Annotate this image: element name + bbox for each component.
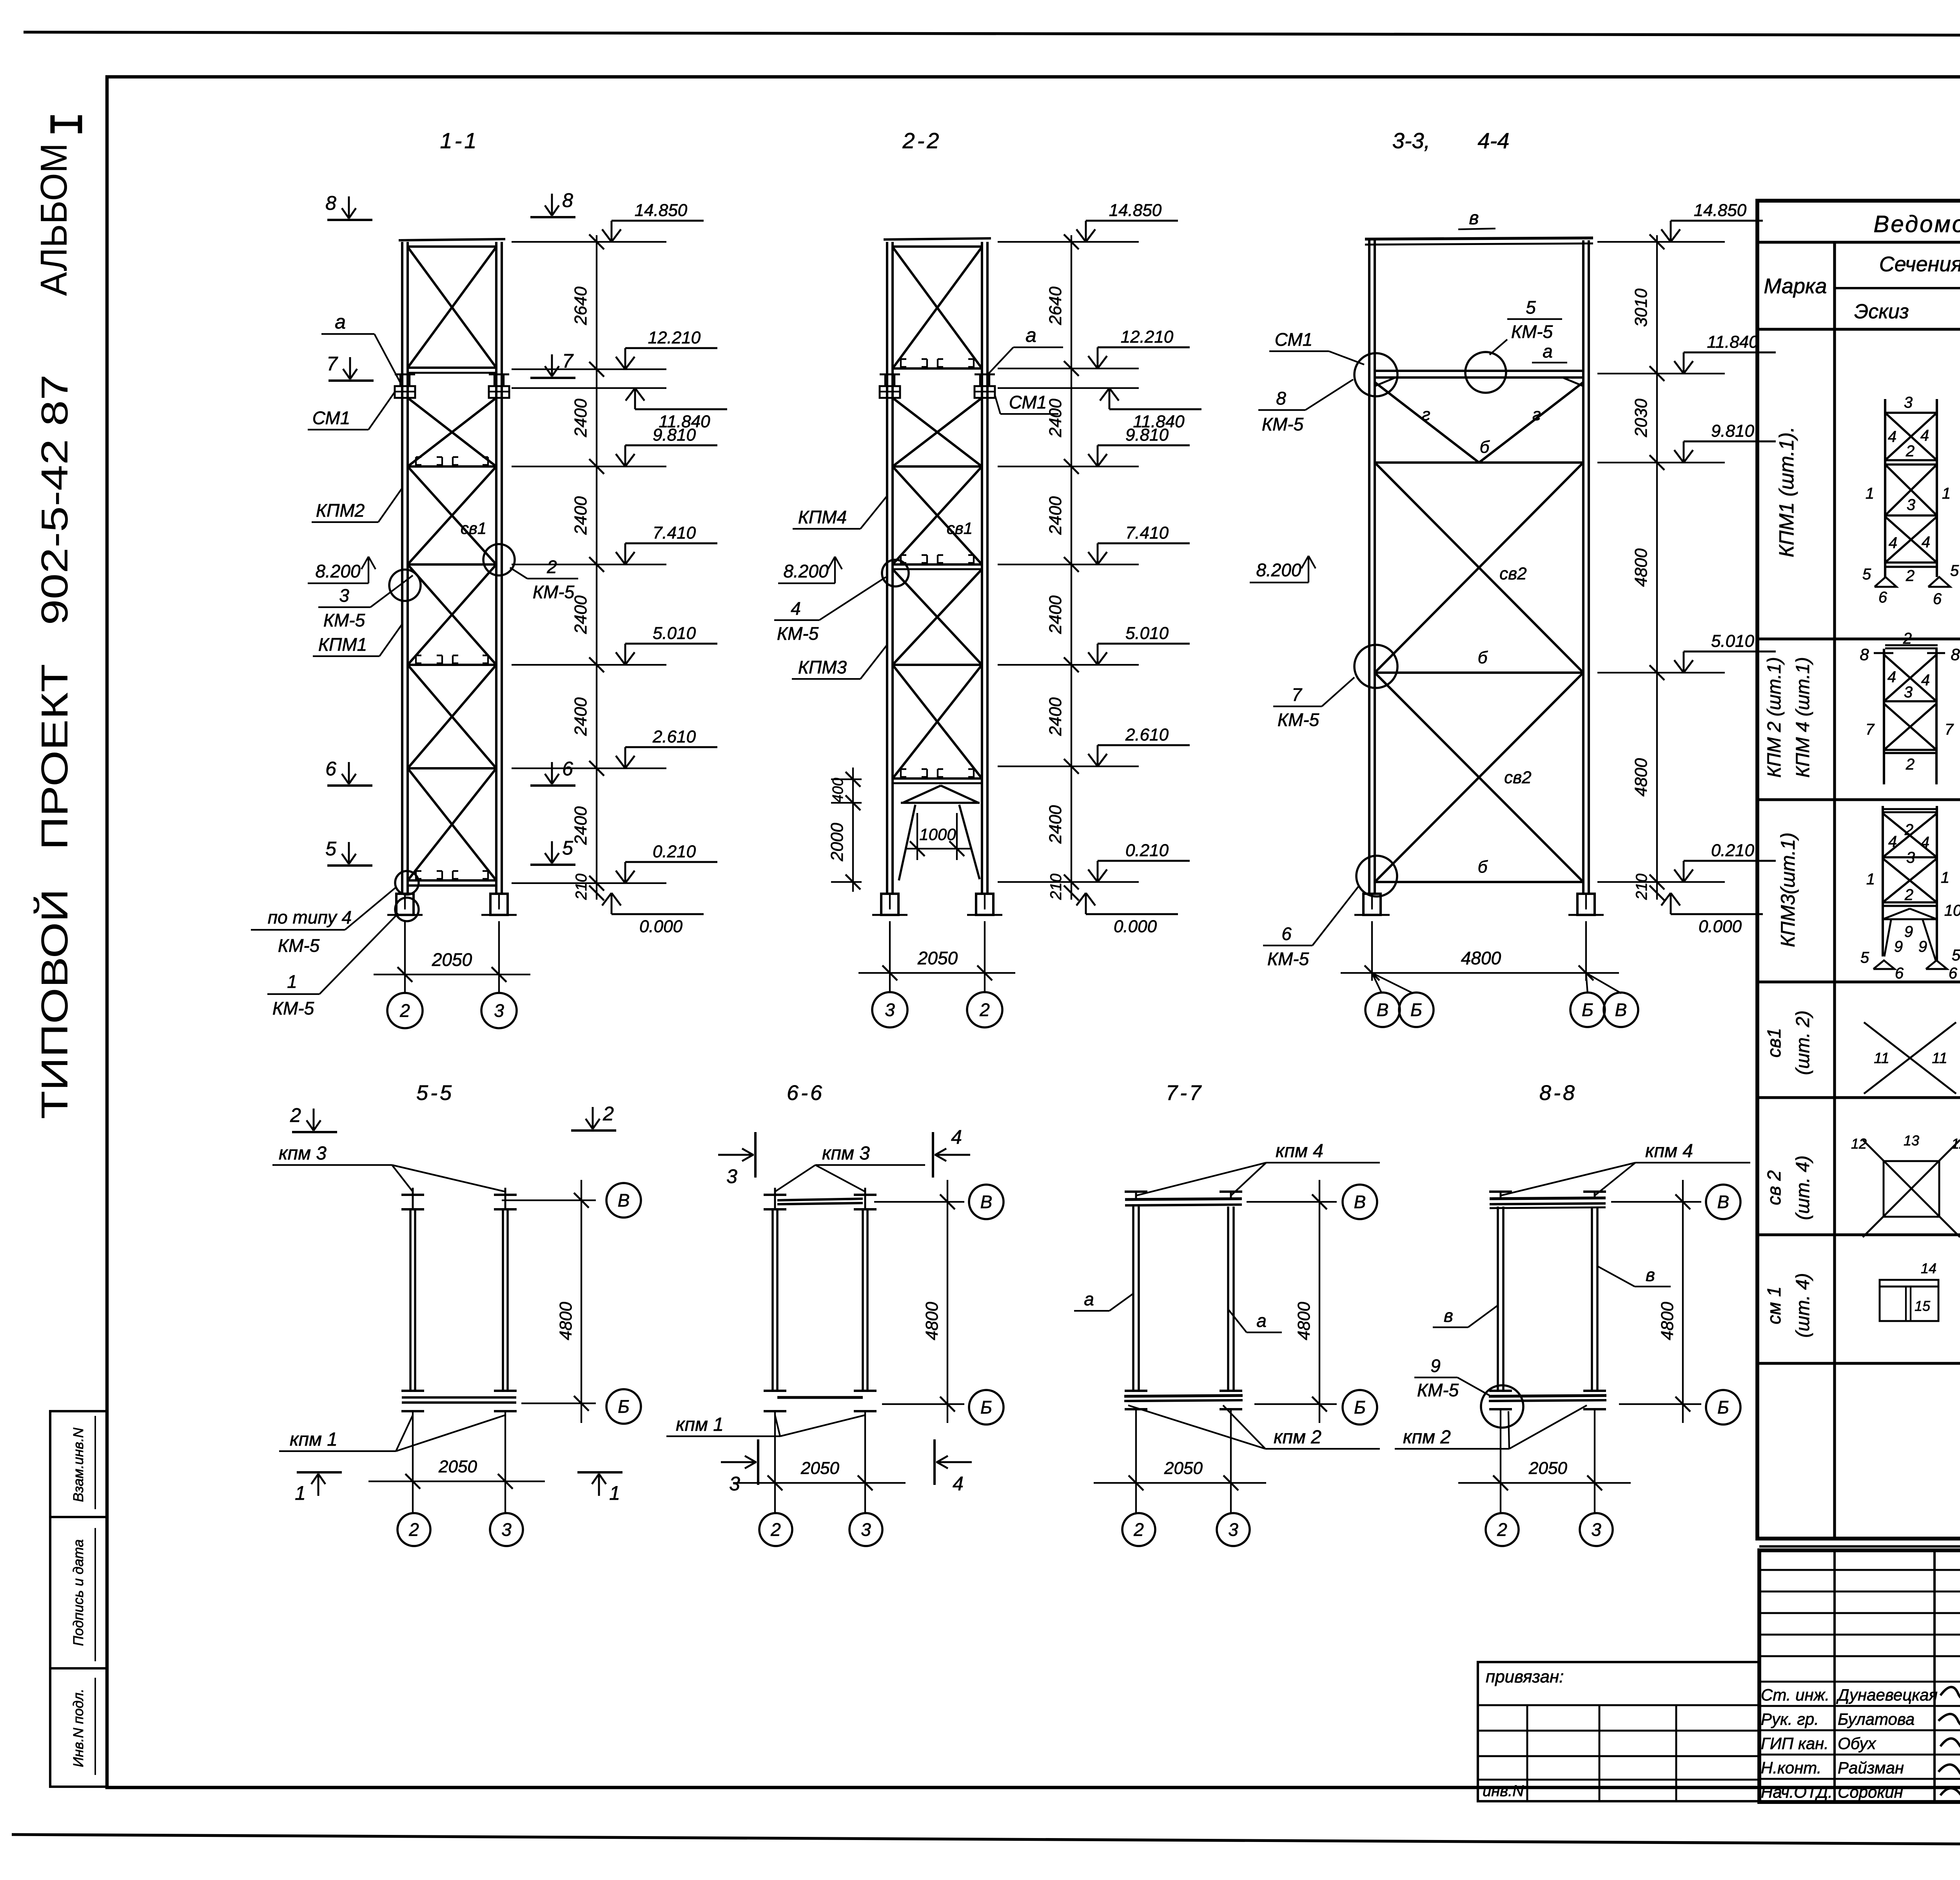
svg-text:2400: 2400 — [571, 697, 590, 736]
section 7-7 left column а — [1125, 1190, 1147, 1193]
table title row — [1757, 241, 1960, 243]
svg-text:14: 14 — [1921, 1260, 1936, 1276]
level flags tower 1-1 — [611, 221, 613, 242]
tower 1-1 X brace panel 4 — [408, 564, 496, 665]
svg-text:7-7: 7-7 — [1166, 1081, 1203, 1105]
tower 2-2 X brace panel 3 — [893, 466, 982, 564]
grid bubble 3 section 5-5 — [490, 1513, 523, 1546]
svg-text:Б: Б — [1354, 1397, 1366, 1417]
svg-text:2: 2 — [979, 1000, 990, 1020]
svg-text:15: 15 — [1915, 1298, 1931, 1314]
svg-text:КМ-5: КМ-5 — [1511, 321, 1553, 342]
svg-text:(шт. 4): (шт. 4) — [1793, 1156, 1813, 1220]
svg-text:5: 5 — [1952, 947, 1960, 964]
svg-text:Марка: Марка — [1764, 274, 1827, 298]
section marker 7 left — [328, 379, 374, 382]
svg-text:2.610: 2.610 — [1125, 725, 1169, 744]
svg-text:4: 4 — [791, 598, 801, 619]
svg-text:3: 3 — [885, 1000, 895, 1020]
tower 2-2 rung at 12.210 with channel marks — [893, 367, 982, 370]
svg-text:АЛЬБОМ: АЛЬБОМ — [33, 143, 75, 296]
bottom-left stamp column — [50, 1411, 107, 1787]
svg-text:1: 1 — [1941, 869, 1949, 886]
tower 3-3 top chord в — [1365, 238, 1593, 239]
svg-text:2400: 2400 — [571, 399, 590, 437]
grid bubble 3 tower 2-2 — [889, 981, 891, 993]
svg-text:Ведомость: Ведомость — [1873, 211, 1960, 237]
svg-text:6: 6 — [1281, 924, 1292, 944]
dimension 4800 tower 3-3 — [1371, 921, 1373, 981]
grid bubble Б section 7-7 — [1343, 1390, 1377, 1425]
grid bubble 3 section 7-7 — [1217, 1513, 1250, 1546]
svg-text:5: 5 — [1862, 566, 1871, 583]
svg-text:2.610: 2.610 — [652, 727, 696, 746]
tower 1-1 top chord — [399, 239, 505, 240]
section 7-7 right column а — [1220, 1190, 1242, 1193]
section 8-8 bottom beam КПМ2 — [1489, 1390, 1512, 1392]
svg-text:СМ1: СМ1 — [1275, 329, 1313, 350]
tower 2-2 top chord — [884, 238, 991, 240]
grid bubble 2 section 5-5 — [397, 1513, 430, 1546]
svg-text:4: 4 — [1922, 534, 1930, 551]
svg-text:КМ-5: КМ-5 — [1278, 710, 1319, 730]
dimension chain tower 3-3 — [1656, 235, 1658, 900]
svg-text:7: 7 — [1292, 684, 1302, 705]
svg-text:КПМ4: КПМ4 — [798, 507, 847, 527]
svg-text:6-6: 6-6 — [787, 1081, 824, 1105]
svg-text:1000: 1000 — [919, 825, 956, 844]
svg-text:(шт. 4): (шт. 4) — [1793, 1273, 1813, 1338]
svg-text:св1: св1 — [947, 519, 973, 537]
columns leader lines to bubbles 7-7 — [1135, 1409, 1137, 1513]
grid bubble 2 tower 2-2 — [984, 981, 985, 993]
svg-text:Ст. инж.: Ст. инж. — [1761, 1686, 1829, 1704]
joint circle 6 КМ-5 — [1356, 856, 1397, 896]
svg-text:2050: 2050 — [432, 949, 472, 970]
svg-text:2400: 2400 — [1046, 399, 1065, 437]
svg-text:4: 4 — [1888, 428, 1896, 445]
tower 1-1 X brace panel 2 — [408, 398, 496, 466]
tower 3-3 X brace СВ2 upper — [1375, 463, 1583, 673]
svg-text:Б: Б — [1582, 1000, 1593, 1020]
svg-text:2400: 2400 — [1046, 697, 1065, 736]
svg-text:б: б — [1480, 437, 1490, 457]
svg-text:3: 3 — [501, 1519, 512, 1540]
svg-text:7.410: 7.410 — [653, 523, 696, 543]
svg-text:0.000: 0.000 — [639, 917, 683, 936]
level flags tower 3-3 — [1670, 221, 1672, 242]
svg-text:(шт. 2): (шт. 2) — [1793, 1011, 1813, 1075]
dimension 4800 section 6-6 — [947, 1180, 948, 1423]
tower 2-2 rung at 5.010 — [893, 664, 982, 666]
svg-text:а: а — [1256, 1310, 1267, 1331]
svg-text:8.200: 8.200 — [1256, 560, 1301, 580]
grid bubble 2 section 6-6 — [759, 1513, 792, 1546]
grid bubbles Б В right — [1586, 973, 1588, 993]
tower 3-3 base plate right — [1577, 894, 1595, 915]
svg-text:в: в — [1444, 1305, 1453, 1326]
grid bubble 3 — [498, 982, 500, 993]
svg-text:12.210: 12.210 — [1121, 327, 1174, 347]
svg-text:КПМ2: КПМ2 — [316, 500, 365, 521]
joint circle 3 КМ-5 — [389, 570, 421, 601]
tower 2-2 X brace panel 4 — [893, 569, 982, 665]
svg-text:г: г — [1532, 405, 1541, 424]
grid bubble Б section 6-6 — [969, 1390, 1004, 1425]
grid bubble 2 section 8-8 — [1486, 1513, 1519, 1546]
grid bubble В section 6-6 — [969, 1185, 1004, 1219]
dimension 400/2000 tower 2-2 — [852, 768, 854, 892]
svg-text:2: 2 — [1906, 567, 1915, 584]
svg-text:3: 3 — [1907, 496, 1915, 514]
tower 3-3 base plate left — [1363, 894, 1381, 915]
tower 1-1 СМ1 joint left — [395, 374, 415, 376]
table header band — [1757, 328, 1960, 330]
svg-text:11: 11 — [1874, 1050, 1889, 1067]
svg-text:КМ-5: КМ-5 — [272, 998, 314, 1018]
sketch КПМ3 mini tower — [1882, 806, 1884, 956]
joint circle 8 КМ-5 — [1354, 353, 1397, 396]
svg-text:а: а — [1543, 341, 1553, 361]
svg-text:В: В — [1377, 1000, 1389, 1020]
svg-text:Сечения: Сечения — [1879, 252, 1960, 276]
svg-text:кпм 3: кпм 3 — [822, 1143, 870, 1164]
tower 3-3 beam а at 11.840 — [1375, 370, 1583, 372]
svg-text:а: а — [335, 311, 346, 333]
svg-text:В: В — [618, 1190, 630, 1210]
svg-text:КМ-5: КМ-5 — [323, 610, 365, 630]
svg-text:400: 400 — [830, 778, 846, 802]
svg-text:2050: 2050 — [1164, 1459, 1203, 1478]
svg-text:2: 2 — [603, 1103, 614, 1125]
svg-text:2400: 2400 — [1046, 595, 1065, 634]
svg-text:3: 3 — [494, 1000, 504, 1021]
svg-text:СМ1: СМ1 — [1009, 392, 1047, 412]
svg-text:8.200: 8.200 — [783, 561, 829, 581]
svg-text:5-5: 5-5 — [416, 1081, 454, 1105]
svg-text:5: 5 — [1950, 562, 1959, 579]
svg-text:В: В — [1717, 1192, 1730, 1212]
svg-text:В: В — [1354, 1192, 1366, 1212]
svg-text:2: 2 — [1904, 821, 1913, 838]
dimension 1000 tower 2-2 — [916, 813, 918, 860]
svg-text:1: 1 — [295, 1482, 306, 1504]
tower 2-2 rung at 7.410 with channel marks — [893, 563, 982, 566]
dimension 4800 section 5-5 — [581, 1180, 582, 1423]
svg-text:КПМ 2 (шт.1): КПМ 2 (шт.1) — [1764, 657, 1785, 778]
svg-text:2050: 2050 — [917, 948, 958, 968]
svg-text:ТИПОВОЙ ПРОЕКТ 902-5-42 87: ТИПОВОЙ ПРОЕКТ 902-5-42 87 — [33, 374, 76, 1119]
section marker 7 right — [530, 377, 575, 379]
svg-text:кпм 4: кпм 4 — [1276, 1141, 1323, 1161]
svg-text:8: 8 — [1860, 645, 1869, 664]
svg-text:4800: 4800 — [1461, 948, 1501, 968]
svg-text:1: 1 — [1942, 485, 1951, 502]
tower 1-1 rung at 9.810 with channel marks — [408, 465, 496, 468]
tower 3-3 corner gusset left — [1375, 377, 1396, 386]
svg-text:КПМ 4 (шт.1): КПМ 4 (шт.1) — [1793, 657, 1813, 778]
tower 1-1 rung at 2.610 — [408, 767, 496, 769]
tower 1-1 rung at 12.210 — [408, 367, 496, 369]
dimension 2050 section 5-5 — [368, 1481, 545, 1482]
grid bubble В section 7-7 — [1343, 1185, 1377, 1219]
svg-text:12: 12 — [1851, 1136, 1867, 1152]
svg-text:Нач.ОТД.: Нач.ОТД. — [1761, 1783, 1833, 1801]
svg-text:3: 3 — [1906, 849, 1915, 866]
svg-text:0.210: 0.210 — [653, 842, 696, 861]
svg-text:5.010: 5.010 — [1711, 632, 1755, 651]
svg-text:4: 4 — [1920, 427, 1929, 444]
svg-text:3: 3 — [339, 585, 349, 606]
svg-text:в: в — [1646, 1265, 1655, 1285]
svg-text:КПМ3: КПМ3 — [798, 657, 847, 677]
svg-text:9.810: 9.810 — [653, 425, 696, 445]
svg-text:4: 4 — [1921, 671, 1930, 689]
svg-text:Эскиз: Эскиз — [1854, 300, 1909, 323]
tower 1-1 СМ1 joint right — [489, 374, 509, 376]
section 6-6 bottom beam КПМ1 — [764, 1390, 786, 1392]
svg-text:7: 7 — [1945, 721, 1954, 738]
svg-text:КПМ1: КПМ1 — [318, 634, 367, 655]
svg-text:св1: св1 — [461, 519, 486, 537]
svg-text:кпм 1: кпм 1 — [290, 1429, 338, 1450]
level flags tower 2-2 — [1085, 221, 1087, 242]
svg-text:2: 2 — [1903, 630, 1912, 647]
svg-text:2030: 2030 — [1632, 399, 1651, 437]
svg-text:14.850: 14.850 — [635, 201, 688, 220]
svg-text:12.210: 12.210 — [648, 328, 701, 347]
svg-text:3: 3 — [726, 1165, 737, 1187]
dimension chain tower 2-2 — [1071, 235, 1072, 900]
svg-text:Б: Б — [1717, 1397, 1729, 1417]
svg-text:11: 11 — [1932, 1050, 1947, 1067]
section marker 5 right — [530, 864, 575, 866]
section 6-6 top beam КПМ3 — [777, 1199, 863, 1200]
svg-text:КМ-5: КМ-5 — [1262, 414, 1304, 434]
svg-text:2400: 2400 — [1046, 496, 1065, 535]
svg-text:б: б — [1478, 648, 1488, 667]
svg-text:2: 2 — [1497, 1519, 1507, 1540]
svg-text:6: 6 — [1895, 965, 1904, 982]
section 6-6 left column — [764, 1194, 786, 1196]
svg-text:6: 6 — [1949, 965, 1958, 982]
svg-text:1: 1 — [1866, 871, 1875, 888]
svg-text:4: 4 — [1889, 534, 1897, 552]
svg-text:0.000: 0.000 — [1114, 917, 1157, 936]
svg-text:5: 5 — [325, 838, 336, 860]
svg-text:2050: 2050 — [1528, 1459, 1567, 1478]
section 5-5 right column stub — [494, 1194, 517, 1196]
svg-text:3: 3 — [1228, 1519, 1238, 1540]
marker 1 bottom-right — [577, 1471, 622, 1474]
joint circle 2 КМ-5 — [483, 544, 515, 575]
svg-text:3: 3 — [861, 1519, 871, 1540]
section 7-7 top beam КПМ4 — [1125, 1199, 1242, 1199]
section 8-8 left column в — [1489, 1190, 1512, 1193]
svg-text:Инв.N подл.: Инв.N подл. — [70, 1689, 86, 1767]
svg-text:а: а — [1025, 324, 1036, 346]
tower 2-2 X brace panel 1 — [893, 247, 982, 368]
svg-text:4: 4 — [953, 1473, 964, 1495]
joint circle 7 КМ-5 — [1354, 645, 1397, 688]
tower 3-3 corner gusset right — [1563, 377, 1583, 386]
svg-text:Обух: Обух — [1838, 1734, 1877, 1753]
tower 1-1 left column КПМ — [401, 242, 403, 894]
svg-text:4800: 4800 — [922, 1302, 942, 1340]
svg-text:инв.N: инв.N — [1483, 1782, 1524, 1800]
svg-text:9.810: 9.810 — [1711, 421, 1755, 441]
tower 1-1 X brace panel 1 — [408, 247, 496, 368]
columns leader lines to bubbles 5-5 — [412, 1411, 414, 1513]
svg-text:11.840: 11.840 — [1707, 332, 1759, 352]
svg-text:кпм 3: кпм 3 — [279, 1143, 327, 1164]
title block signature grid — [1833, 1550, 1836, 1802]
svg-text:4800: 4800 — [1632, 548, 1651, 587]
svg-text:2: 2 — [399, 1000, 410, 1021]
tower 2-2 door hat — [903, 786, 941, 803]
svg-text:СМ1: СМ1 — [312, 408, 350, 428]
svg-text:4: 4 — [1887, 668, 1896, 686]
section 5-5 left column stub — [401, 1194, 424, 1196]
svg-text:2000: 2000 — [828, 823, 847, 862]
svg-text:4800: 4800 — [1632, 758, 1651, 797]
svg-text:14.850: 14.850 — [1694, 201, 1747, 220]
tower 3-3 right column — [1582, 240, 1584, 894]
svg-text:Взам.инв.N: Взам.инв.N — [70, 1427, 86, 1502]
svg-text:В: В — [980, 1192, 993, 1212]
svg-text:4800: 4800 — [1294, 1302, 1314, 1340]
svg-text:Райзман: Райзман — [1838, 1758, 1904, 1777]
svg-text:5: 5 — [1526, 297, 1536, 318]
svg-text:3: 3 — [1904, 394, 1913, 411]
svg-text:2400: 2400 — [571, 806, 590, 845]
grid bubble 2 section 7-7 — [1122, 1513, 1155, 1546]
svg-text:а: а — [1084, 1289, 1094, 1309]
svg-text:9: 9 — [1904, 923, 1913, 940]
svg-text:привязан:: привязан: — [1486, 1667, 1564, 1686]
svg-text:КПМ1 (шт.1).: КПМ1 (шт.1). — [1775, 426, 1798, 557]
paper bottom edge — [12, 1835, 1960, 1847]
svg-text:4: 4 — [951, 1126, 962, 1148]
dimension 2050 tower 2-2 — [889, 921, 891, 981]
tower 2-2 left column КПМ3 — [886, 242, 888, 894]
section marker 5 left — [327, 864, 372, 867]
marker 1 bottom-left — [297, 1471, 342, 1474]
dimension 4800 section 7-7 — [1319, 1180, 1320, 1423]
grid bubble В section 5-5 — [606, 1183, 641, 1218]
svg-text:3: 3 — [1904, 684, 1913, 701]
svg-text:2: 2 — [1906, 756, 1915, 773]
tower 1-1 X brace panel 3 — [408, 466, 496, 564]
tower 2-2 door legs — [899, 805, 915, 880]
marker 3 top-left 6-6 — [754, 1132, 757, 1178]
svg-text:6: 6 — [1933, 590, 1942, 608]
tower 2-2 СМ1 joint right — [975, 374, 995, 376]
tower 3-3 г diagonals — [1375, 382, 1479, 463]
dimension 2050 section 6-6 — [733, 1482, 906, 1484]
section 5-5 bottom beam КПМ1 — [401, 1390, 424, 1392]
svg-text:1-1: 1-1 — [440, 128, 479, 153]
tower 1-1 X brace panel 5 — [408, 665, 496, 768]
grid bubble Б section 8-8 — [1706, 1390, 1740, 1425]
svg-text:1: 1 — [287, 971, 297, 992]
svg-text:8: 8 — [325, 192, 336, 214]
section marker 6 right — [530, 784, 575, 787]
svg-text:кпм 2: кпм 2 — [1403, 1427, 1451, 1448]
svg-text:Подпись и дата: Подпись и дата — [70, 1539, 86, 1646]
section 6-6 right column — [854, 1194, 877, 1196]
svg-text:2640: 2640 — [1046, 287, 1065, 325]
svg-text:3: 3 — [1591, 1519, 1601, 1540]
svg-text:8.200: 8.200 — [315, 561, 361, 581]
sheet paper top edge — [24, 32, 1960, 36]
svg-text:4800: 4800 — [556, 1302, 575, 1340]
tower 3-3 б chord at 9.810 — [1375, 461, 1583, 464]
svg-text:9.810: 9.810 — [1125, 425, 1169, 445]
svg-text:2: 2 — [408, 1519, 419, 1540]
grid bubble 2 — [404, 982, 406, 993]
grid bubble В section 8-8 — [1706, 1185, 1740, 1219]
svg-text:КМ-5: КМ-5 — [278, 935, 320, 956]
tower 2-2 rung at 9.810 — [893, 465, 982, 468]
header split lines — [1835, 287, 1960, 289]
svg-text:св2: св2 — [1504, 768, 1531, 787]
privyazan box — [1478, 1662, 1759, 1801]
svg-text:ГИП кан.: ГИП кан. — [1761, 1734, 1829, 1753]
svg-text:2640: 2640 — [571, 287, 590, 325]
tower 2-2 СМ1 joint left — [880, 374, 900, 376]
svg-text:8: 8 — [562, 189, 573, 211]
svg-text:10: 10 — [1944, 902, 1960, 919]
table section boundaries — [1757, 637, 1960, 640]
svg-text:б: б — [1478, 857, 1488, 876]
svg-text:4800: 4800 — [1658, 1302, 1677, 1340]
tower 1-1 rung at 7.410 — [408, 563, 496, 566]
section 8-8 top beam КПМ4 — [1490, 1198, 1606, 1199]
svg-text:Б: Б — [618, 1396, 630, 1417]
svg-text:св2: св2 — [1499, 564, 1526, 583]
svg-text:2: 2 — [1906, 443, 1915, 460]
svg-text:КМ-5: КМ-5 — [533, 582, 575, 602]
svg-text:Н.конт.: Н.конт. — [1761, 1758, 1822, 1777]
svg-text:13: 13 — [1904, 1132, 1919, 1149]
svg-text:Дунаевецкая: Дунаевецкая — [1836, 1686, 1938, 1704]
svg-text:2400: 2400 — [1046, 805, 1065, 844]
section marker 6 left — [327, 784, 372, 787]
svg-text:2: 2 — [1133, 1519, 1144, 1540]
svg-text:КМ-5: КМ-5 — [1267, 949, 1309, 969]
section 7-7 bottom beam КПМ2 — [1125, 1390, 1147, 1392]
svg-text:кпм 4: кпм 4 — [1645, 1141, 1693, 1161]
grid bubble 3 section 6-6 — [849, 1513, 882, 1546]
svg-text:по типу 4: по типу 4 — [268, 907, 352, 927]
svg-text:7: 7 — [327, 353, 338, 375]
svg-text:0.210: 0.210 — [1125, 841, 1169, 860]
tower 3-3 X brace СВ2 lower — [1375, 673, 1583, 882]
svg-text:0.000: 0.000 — [1699, 917, 1742, 936]
joint circle 5 КМ-5 — [1465, 352, 1506, 393]
svg-text:см 1: см 1 — [1764, 1287, 1785, 1325]
svg-text:Б: Б — [1410, 1000, 1422, 1020]
marker 2 top-right — [571, 1129, 616, 1132]
tower 1-1 rung at 5.010 with channel marks — [408, 664, 496, 666]
tower 1-1 bottom rung at 0.210 with channel marks — [408, 879, 496, 882]
svg-text:2: 2 — [770, 1519, 781, 1540]
svg-text:2: 2 — [290, 1104, 301, 1126]
dimension 2050 section 7-7 — [1094, 1482, 1266, 1484]
svg-text:210: 210 — [1047, 874, 1065, 900]
section marker 8 left — [327, 219, 372, 221]
